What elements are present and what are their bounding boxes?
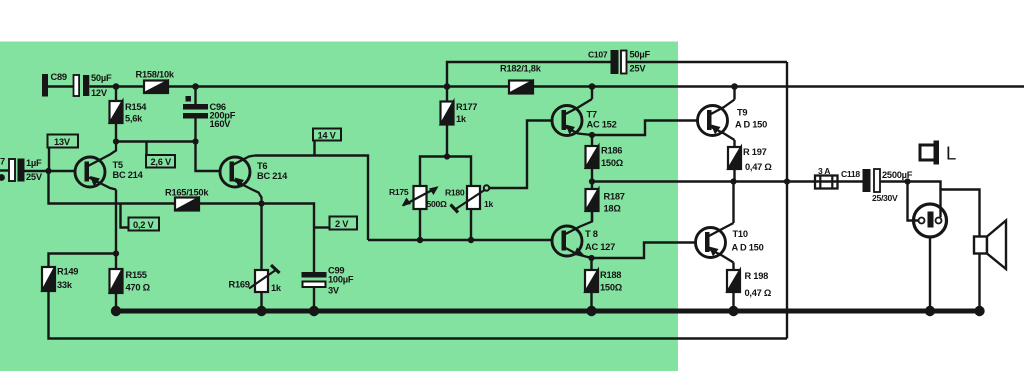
terminal bar C89 input — [42, 74, 48, 97]
resistor R198 0,47 Ohm — [727, 270, 772, 298]
svg-text:5,6k: 5,6k — [125, 114, 143, 124]
ground bus — [112, 309, 984, 314]
svg-text:7: 7 — [0, 157, 5, 167]
svg-text:A D 150: A D 150 — [732, 243, 764, 253]
svg-text:2500µF: 2500µF — [882, 170, 913, 180]
svg-text:T7: T7 — [587, 110, 597, 120]
wire: T10 collector to output — [732, 182, 734, 224]
svg-text:T6: T6 — [257, 161, 267, 171]
svg-text:1k: 1k — [484, 199, 493, 209]
wire: supply rail y=86.5 — [90, 85, 145, 87]
capacitor C107 50uF 25V — [588, 50, 650, 75]
resistor R187 18 Ohm — [586, 189, 625, 214]
svg-text:13V: 13V — [54, 137, 71, 147]
speaker connector socket — [914, 204, 947, 237]
wire: T5 emitter column — [115, 190, 117, 254]
wire: 0,2V leader — [121, 204, 129, 228]
wire: T5 collector node y=141.5 — [116, 140, 196, 142]
transistor T8 AC127 — [552, 211, 615, 258]
wire: C96 leads — [194, 87, 196, 105]
node T7 collector — [589, 83, 596, 90]
resistor R182/1,8k — [500, 64, 542, 94]
bus node connector — [925, 306, 935, 316]
wire: 14V leader — [313, 141, 315, 156]
L speaker icon — [920, 141, 956, 165]
svg-text:25V: 25V — [26, 172, 43, 182]
resistor R158/10k — [136, 70, 175, 94]
svg-text:L: L — [946, 143, 956, 164]
voltage label 14V — [313, 129, 341, 141]
wire: right vertical feedback x=787 — [786, 62, 788, 339]
capacitor C118 2500uF 25/30V — [863, 169, 913, 203]
svg-text:1µF: 1µF — [26, 158, 42, 168]
svg-text:T10: T10 — [733, 229, 748, 239]
node R197/T10 collector — [730, 178, 736, 184]
wire: base bias run to R165 — [49, 171, 176, 204]
capacitor C87 1uF (input, partially cut) — [0, 157, 43, 183]
wire: input coupling to T5 base — [0, 169, 9, 171]
svg-text:50µF: 50µF — [630, 50, 651, 60]
wire: R198 leads — [732, 263, 734, 271]
node R154/supply — [113, 83, 120, 90]
wire: T6 emitter to top rail of pots — [255, 156, 368, 241]
wire: C99 branch — [262, 204, 315, 273]
node C96/supply — [192, 83, 199, 90]
voltage label 0,2V — [129, 218, 160, 231]
node R177/C107 — [444, 83, 451, 90]
fuse 3A — [815, 166, 860, 189]
svg-text:A D 150: A D 150 — [735, 120, 767, 130]
svg-text:100µF: 100µF — [328, 275, 354, 285]
node R175 bottom — [417, 237, 423, 243]
svg-text:C118: C118 — [841, 169, 860, 179]
wire: pot top rail — [420, 157, 471, 187]
svg-text:R165/150k: R165/150k — [165, 188, 209, 198]
node R177 bottom — [444, 153, 450, 159]
preset R180 1k — [445, 185, 493, 212]
wire: R186 leads — [591, 135, 593, 146]
transistor T5 BC214 — [75, 142, 144, 190]
wire: R155 leads — [115, 254, 117, 270]
wire: T8 collector to T10 base — [592, 243, 696, 259]
resistor R154 5,6k — [110, 101, 148, 124]
svg-text:3 A: 3 A — [818, 166, 830, 176]
wire: T6 base feed — [196, 142, 221, 172]
wire: speaker branch — [941, 190, 980, 237]
resistor R165/150k — [165, 188, 209, 211]
node output/feedback — [784, 178, 790, 184]
bus node R169 — [256, 306, 266, 316]
speaker — [974, 221, 1006, 270]
wire: R154 leads — [115, 87, 117, 102]
voltage label 2,6V — [146, 155, 175, 168]
svg-text:0,47 Ω: 0,47 Ω — [745, 162, 772, 172]
svg-text:T 8: T 8 — [585, 229, 598, 239]
node C118/connector — [904, 178, 910, 184]
svg-text:14 V: 14 V — [318, 131, 337, 141]
svg-text:R155: R155 — [126, 270, 147, 280]
svg-text:R186: R186 — [601, 146, 622, 156]
capacitor C89 50uF 12V — [51, 72, 112, 98]
resistor R177 1k — [441, 102, 478, 125]
node R180 bottom — [468, 237, 474, 243]
bus node C99 — [309, 306, 319, 316]
wire: 2,6V leader — [145, 142, 147, 156]
svg-text:C107: C107 — [588, 50, 608, 60]
svg-text:500Ω: 500Ω — [427, 199, 447, 209]
svg-text:R177: R177 — [456, 102, 477, 112]
svg-text:0,47 Ω: 0,47 Ω — [745, 288, 772, 298]
transistor T6 BC214 — [220, 156, 288, 204]
node R186/R187 output — [589, 178, 595, 184]
svg-text:BC 214: BC 214 — [257, 171, 288, 181]
wire: T7 collector to supply — [591, 87, 593, 100]
svg-text:160V: 160V — [210, 119, 232, 129]
voltage label 2V — [330, 217, 358, 230]
svg-text:33k: 33k — [57, 280, 73, 290]
bus node R198 — [728, 306, 738, 316]
svg-text:2 V: 2 V — [335, 219, 349, 229]
voltage label 13V — [48, 135, 79, 148]
node T5 base — [45, 168, 51, 174]
svg-text:R180: R180 — [445, 188, 465, 198]
wire: R187 leads — [591, 182, 593, 190]
wire: pot bottom leads — [419, 209, 421, 240]
svg-text:470 Ω: 470 Ω — [126, 283, 151, 293]
svg-text:R149: R149 — [57, 267, 78, 277]
node T9 collector — [731, 83, 738, 90]
svg-text:R 197: R 197 — [743, 147, 767, 157]
svg-text:150Ω: 150Ω — [601, 158, 624, 168]
preset R169 1k — [229, 265, 282, 293]
node T7 emitter — [589, 132, 595, 138]
wire: T9 collector to supply — [733, 87, 735, 100]
svg-text:R182/1,8k: R182/1,8k — [500, 64, 542, 74]
node T5 collector — [113, 138, 119, 144]
input terminal dot — [0, 174, 5, 181]
bus node R188 — [586, 306, 596, 316]
bus node R155 — [111, 306, 121, 316]
bus node speaker — [974, 306, 984, 316]
transistor T10 AD150 — [696, 223, 764, 263]
svg-text:3V: 3V — [328, 286, 340, 296]
wire: 2V leader — [315, 226, 330, 228]
node T5 emitter/R149 — [113, 250, 119, 256]
wire: pot bottom rail to T8 base — [368, 239, 553, 241]
svg-text:R187: R187 — [604, 192, 625, 202]
svg-text:1k: 1k — [456, 114, 467, 124]
potentiometer R175 500 Ohm — [389, 186, 447, 209]
wire: R197 lead to output — [733, 140, 735, 147]
svg-text:150Ω: 150Ω — [600, 283, 623, 293]
svg-text:25V: 25V — [630, 64, 647, 74]
wire: bottom feedback line y=338.5 — [49, 291, 788, 339]
wire C89 left — [48, 85, 74, 87]
wire: output line y=181.5 — [592, 180, 863, 182]
svg-text:R188: R188 — [600, 270, 621, 280]
wire: T7 emitter to T9 base — [592, 121, 698, 136]
resistor R186 150 Ohm — [586, 146, 624, 169]
svg-text:1k: 1k — [271, 283, 282, 293]
svg-text:R 198: R 198 — [745, 271, 769, 281]
wire: connector left pin feed — [908, 182, 919, 221]
wire: R188 leads — [590, 258, 592, 270]
wire: R149 branch — [49, 254, 117, 268]
node T8 collector — [588, 255, 594, 261]
wire: R177 leads — [446, 87, 448, 102]
svg-text:BC 214: BC 214 — [113, 170, 144, 180]
wire: 13V leader — [48, 148, 50, 172]
transistor T9 AD150 — [698, 100, 768, 141]
svg-text:R158/10k: R158/10k — [136, 70, 175, 80]
svg-text:25/30V: 25/30V — [872, 193, 898, 203]
svg-text:0,2 V: 0,2 V — [133, 220, 155, 230]
capacitor C99 100uF 3V — [302, 266, 354, 296]
capacitor C96 200pF 160V — [183, 96, 236, 129]
resistor R188 150 Ohm — [585, 270, 623, 293]
resistor R149 33k — [42, 267, 78, 292]
resistor R155 470 Ohm — [110, 269, 151, 293]
svg-text:AC 152: AC 152 — [587, 120, 617, 130]
svg-text:C89: C89 — [51, 72, 67, 82]
green highlight panel — [0, 42, 678, 371]
svg-text:2,6 V: 2,6 V — [151, 157, 173, 167]
svg-text:18Ω: 18Ω — [604, 204, 622, 214]
svg-text:AC 127: AC 127 — [585, 242, 615, 252]
wire: connector bottom to ground — [929, 238, 931, 312]
node T6 collector — [258, 200, 264, 206]
wire: bootstrap top line y=62 — [447, 62, 611, 87]
svg-text:R154: R154 — [125, 102, 147, 112]
wire: T6 collector column / R169 leads — [260, 204, 262, 271]
svg-text:R175: R175 — [389, 187, 409, 197]
svg-text:T9: T9 — [737, 108, 747, 118]
svg-text:R169: R169 — [229, 280, 250, 290]
svg-text:T5: T5 — [113, 160, 123, 170]
node C96 bottom — [192, 138, 198, 144]
svg-text:12V: 12V — [91, 88, 108, 98]
transistor T7 AC152 — [552, 99, 617, 136]
resistor R197 0,47 Ohm — [728, 147, 772, 172]
wire: R180 wiper to T7 base — [489, 121, 552, 189]
svg-text:50µF: 50µF — [91, 73, 112, 83]
